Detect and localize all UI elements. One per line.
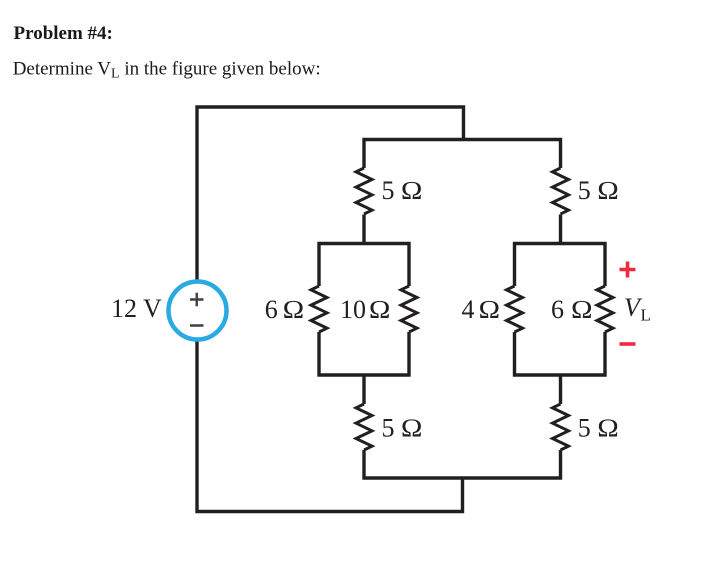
svg-text:4: 4 [462, 295, 475, 324]
label R5 value 4 ohm [462, 295, 501, 324]
svg-text:12 V: 12 V [111, 294, 162, 323]
svg-text:Ω: Ω [597, 414, 619, 443]
svg-text:L: L [641, 306, 651, 325]
wire box2 bottom to R8 [559, 375, 562, 404]
svg-text:5: 5 [578, 414, 591, 443]
wire box2 bottom rail and lower legs [515, 332, 606, 375]
svg-text:Ω: Ω [401, 176, 423, 205]
wire box1 top rail and upper legs [319, 244, 409, 287]
label R4 value 10 ohm [340, 295, 391, 324]
resistor R4 10 ohm (box1 right leg) [401, 286, 417, 332]
wire branch bottom rail with branch ascents [364, 450, 561, 478]
wire box1 bottom to R7 [362, 375, 365, 404]
svg-text:Determine VL in the figure giv: Determine VL in the figure given below: [13, 58, 321, 81]
svg-text:Ω: Ω [401, 414, 423, 443]
voltage source V1 12 V [169, 282, 227, 340]
resistor R3 6 ohm (box1 left leg) [311, 286, 327, 332]
wire top-left loop: left vertical, outer top rail, center stub [197, 107, 464, 281]
resistor R2 5 ohm (top right branch) [553, 168, 569, 214]
resistor R7 5 ohm (bottom left branch) [356, 404, 372, 450]
resistor R8 5 ohm (bottom right branch) [553, 404, 569, 450]
label R8 value 5 ohm [578, 414, 619, 443]
label R2 value 5 ohm [578, 176, 619, 205]
label R3 value 6 ohm [265, 295, 305, 324]
label VL polarity minus (red) [620, 342, 636, 346]
label R6 value 6 ohm [551, 295, 593, 324]
wire box1 bottom rail and lower legs [319, 332, 409, 375]
svg-text:5: 5 [382, 176, 395, 205]
svg-text:6: 6 [265, 295, 278, 324]
svg-text:Problem #4:: Problem #4: [14, 23, 113, 44]
svg-text:10: 10 [340, 295, 366, 324]
wire branch top rail with branch descents [364, 140, 561, 169]
wire box2 top rail and upper legs [515, 244, 606, 287]
svg-text:6: 6 [551, 295, 564, 324]
svg-text:5: 5 [382, 414, 395, 443]
wire R2 to box2 top [559, 215, 562, 244]
svg-text:Ω: Ω [282, 295, 304, 324]
wire bottom stub, outer bottom rail, left vertical to source [197, 341, 463, 512]
label VL polarity plus (red) [620, 262, 636, 278]
resistor R5 4 ohm (box2 left leg) [507, 286, 523, 332]
label R7 value 5 ohm [382, 414, 423, 443]
svg-text:5: 5 [578, 176, 591, 205]
svg-text:Ω: Ω [597, 176, 619, 205]
label R1 value 5 ohm [382, 176, 423, 205]
resistor R1 5 ohm (top left branch) [356, 168, 372, 214]
svg-text:Ω: Ω [571, 295, 593, 324]
svg-text:Ω: Ω [478, 295, 500, 324]
svg-text:Ω: Ω [369, 295, 391, 324]
resistor R6 6 ohm (box2 right leg, load) [597, 286, 613, 332]
wire R1 to box1 top [362, 215, 365, 244]
